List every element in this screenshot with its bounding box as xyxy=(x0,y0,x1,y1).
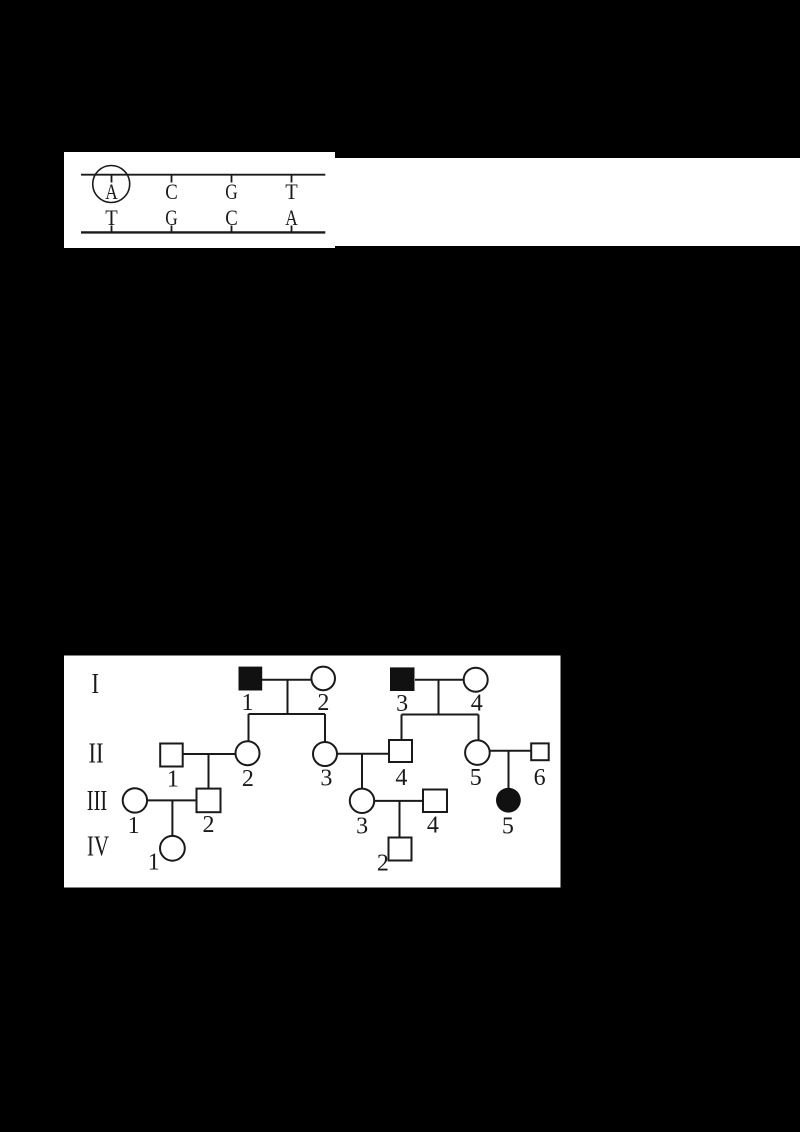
marriage line II-5 to II-6 xyxy=(490,750,531,752)
svg-text:1: 1 xyxy=(148,850,160,876)
svg-text:3: 3 xyxy=(396,691,408,717)
individual IV-1: female (circle) xyxy=(160,836,185,861)
descent line from couple III-1/III-2 to IV-1 xyxy=(171,800,173,835)
sibship line (children of I-1/I-2) xyxy=(249,713,326,715)
individual II-3: female (circle) xyxy=(313,742,337,766)
individual III-4: male (open square) xyxy=(423,790,447,813)
individual I-2: female (circle) xyxy=(311,667,335,691)
svg-text:III: III xyxy=(87,786,108,817)
marriage line II-3 to II-4 xyxy=(338,753,390,755)
svg-text:2: 2 xyxy=(377,851,389,877)
descent line from couple II-3/II-4 to III-3 xyxy=(361,754,363,788)
highlight circle around mutated base A xyxy=(93,166,130,203)
svg-text:I: I xyxy=(92,669,100,700)
drop line to II-3 xyxy=(324,714,326,742)
svg-text:T: T xyxy=(285,179,298,204)
descent line from couple II-1/II-2 to III-2 xyxy=(208,754,210,789)
svg-text:2: 2 xyxy=(317,690,329,716)
svg-text:4: 4 xyxy=(471,691,483,717)
svg-text:4: 4 xyxy=(427,813,439,839)
svg-text:3: 3 xyxy=(356,814,368,840)
individual III-3: female (circle) xyxy=(350,789,374,813)
svg-text:G: G xyxy=(165,205,178,230)
svg-text:C: C xyxy=(225,205,238,230)
white panel: pedigree chart xyxy=(64,656,561,888)
svg-text:2: 2 xyxy=(242,766,254,792)
svg-text:C: C xyxy=(165,179,178,204)
svg-text:1: 1 xyxy=(167,767,179,793)
svg-text:A: A xyxy=(105,179,118,204)
descent line from couple I-1/I-2 xyxy=(287,680,289,714)
tick above base T xyxy=(291,175,293,183)
svg-text:4: 4 xyxy=(395,765,407,791)
svg-text:G: G xyxy=(225,179,238,204)
svg-text:A: A xyxy=(285,205,298,230)
svg-text:5: 5 xyxy=(470,765,482,791)
tick below base C (bottom strand) xyxy=(231,226,233,233)
tick below base T (bottom strand) xyxy=(111,226,113,233)
individual III-1: female (circle) xyxy=(123,788,147,812)
individual I-3: affected male (filled square) xyxy=(390,667,415,691)
drop line to II-5 xyxy=(478,715,480,740)
svg-text:II: II xyxy=(89,739,104,770)
sibship line (children of I-3/I-4) xyxy=(402,714,479,716)
individual II-2: female (circle) xyxy=(236,741,260,765)
individual II-1: male (open square) xyxy=(160,744,183,767)
descent line from couple II-5/II-6 to III-5 xyxy=(508,751,510,788)
svg-text:6: 6 xyxy=(534,765,546,791)
individual II-6: male (small open square) xyxy=(531,743,549,760)
drop line to II-4 xyxy=(401,715,403,741)
svg-text:3: 3 xyxy=(320,766,332,792)
individual II-4: male (open square) xyxy=(389,740,412,762)
tick below base G (bottom strand) xyxy=(171,226,173,233)
tick above base A xyxy=(111,175,113,183)
svg-text:1: 1 xyxy=(242,690,254,716)
tick above base G xyxy=(231,175,233,183)
descent line from couple I-3/I-4 xyxy=(438,680,440,715)
svg-text:IV: IV xyxy=(87,832,109,863)
descent line from couple III-3/III-4 to IV-2 xyxy=(399,801,401,838)
marriage line III-3 to III-4 xyxy=(375,800,423,802)
svg-text:1: 1 xyxy=(128,813,140,839)
marriage line I-1 to I-2 xyxy=(262,679,312,681)
top strand line xyxy=(81,174,325,176)
svg-text:2: 2 xyxy=(203,812,215,838)
individual I-4: female (circle) xyxy=(464,668,488,692)
white panel: DNA base-pairing strip (right extension) xyxy=(335,158,800,246)
marriage line II-1 to II-2 xyxy=(183,753,235,755)
individual III-5: affected female (filled circle) xyxy=(496,788,521,813)
individual IV-2: male (open square) xyxy=(389,838,412,861)
tick above base C xyxy=(171,175,173,183)
svg-text:5: 5 xyxy=(502,814,514,840)
tick below base A (bottom strand) xyxy=(291,226,293,233)
individual III-2: male (open square) xyxy=(197,789,221,813)
white panel: DNA base-pairing strip (left part) xyxy=(64,152,335,248)
individual II-5: female (circle) xyxy=(465,740,490,765)
bottom strand line xyxy=(81,231,325,233)
drop line to II-2 xyxy=(248,714,250,741)
marriage line III-1 to III-2 xyxy=(148,799,197,801)
individual I-1: affected male (filled square) xyxy=(239,667,263,691)
marriage line I-3 to I-4 xyxy=(415,679,463,681)
svg-text:T: T xyxy=(105,205,118,230)
